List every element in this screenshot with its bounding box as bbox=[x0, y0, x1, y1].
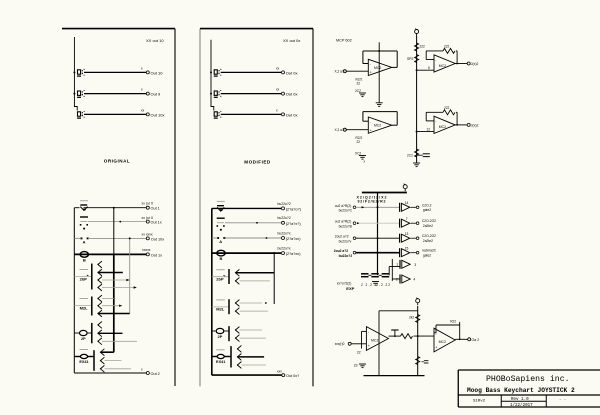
mgroup1 wire a bold bbox=[236, 272, 275, 274]
transistor Q1b bbox=[98, 269, 102, 276]
rev box right line bbox=[545, 395, 547, 407]
resistor R5 box bbox=[216, 300, 225, 312]
rev box divider bbox=[501, 400, 546, 402]
pot A1 bbox=[80, 238, 88, 244]
mgroup1 bracket bbox=[228, 269, 230, 284]
svg-text:ou2 a?R(2): ou2 a?R(2) bbox=[335, 204, 352, 208]
svg-text:SPS: SPS bbox=[407, 57, 413, 61]
group3 stub in bbox=[87, 332, 92, 334]
svg-text:1: 1 bbox=[396, 263, 398, 267]
op-amp U3B triangle bbox=[434, 328, 455, 352]
feedback left vert bbox=[378, 311, 380, 376]
svg-text:+: + bbox=[370, 71, 372, 75]
U2B feedback right vert bbox=[456, 112, 458, 125]
title block top border bbox=[458, 369, 600, 371]
group1 wire b arrowhead bbox=[126, 279, 129, 281]
U2A feedback top bbox=[426, 50, 443, 52]
bottom rail bbox=[364, 375, 425, 377]
U1B feedback loop top bbox=[363, 111, 397, 113]
U1B feedback left vert bbox=[362, 112, 364, 122]
lower bus wire left group bbox=[73, 208, 75, 373]
row3 terminal circle bbox=[353, 237, 356, 240]
modified box left border bbox=[199, 29, 201, 387]
U2B feedback right seg bbox=[456, 111, 457, 113]
terminal circle mrow4 bbox=[282, 252, 285, 255]
row2 wire bbox=[356, 222, 400, 224]
cap C3 bbox=[382, 274, 390, 277]
svg-text:2a2te2: 2a2te2 bbox=[423, 239, 433, 243]
mgroup4 wire a bold bbox=[238, 356, 265, 358]
pot B1 bbox=[80, 252, 88, 263]
buffer bus vertical bbox=[377, 193, 379, 276]
svg-text:15: 15 bbox=[405, 246, 409, 250]
ground g1 bbox=[359, 93, 366, 97]
wire mrow1 bbox=[212, 207, 281, 209]
mgroup3 bracket bbox=[228, 326, 230, 341]
original box right border bbox=[174, 29, 176, 386]
row1 out circle bbox=[416, 206, 419, 209]
svg-text:bu22o?C: bu22o?C bbox=[339, 209, 353, 213]
row1 terminal circle bbox=[353, 206, 356, 209]
svg-text:7: 7 bbox=[406, 217, 408, 221]
buffer G1 bbox=[400, 203, 410, 212]
svg-text:(2?a?o?): (2?a?o?) bbox=[286, 207, 302, 211]
mgroup2 wire b bbox=[240, 310, 269, 312]
transistor Q3b bbox=[98, 330, 102, 337]
mgroup2 bracket bbox=[228, 299, 230, 314]
junction dot busA row1 bbox=[113, 207, 115, 209]
buffer input bracket bbox=[391, 259, 393, 281]
transistor Q8b bbox=[237, 354, 241, 361]
svg-text:Moog Bass Keychart JOYSTICK 2: Moog Bass Keychart JOYSTICK 2 bbox=[467, 387, 575, 394]
U2B feedback left vert bbox=[425, 112, 427, 121]
mgroup1 wire b bbox=[240, 280, 271, 282]
inner vertical bus B bbox=[129, 238, 131, 313]
resistor RZ4 on vertical bbox=[416, 315, 420, 323]
resistor R1 box bbox=[80, 270, 89, 282]
svg-text:PHOBoSapiens inc.: PHOBoSapiens inc. bbox=[486, 374, 570, 384]
wire row4 thick bbox=[74, 253, 146, 255]
row3 junction bbox=[377, 237, 379, 239]
svg-text:XC2: XC2 bbox=[355, 152, 361, 156]
pot A4 bbox=[216, 328, 224, 338]
buffer5 stub bbox=[389, 266, 400, 268]
long vertical through U1A bbox=[378, 42, 380, 102]
mgroup3 wire b bbox=[240, 337, 267, 339]
junction dot U2B out bbox=[456, 124, 458, 126]
svg-text:M2L: M2L bbox=[80, 305, 89, 310]
terminal circle mrow2 bbox=[282, 221, 285, 224]
terminal circle U2A out bbox=[467, 62, 470, 65]
wire mrow4 thick bbox=[212, 252, 281, 254]
transistor Q8c bbox=[237, 362, 241, 369]
svg-text:B: B bbox=[220, 256, 223, 261]
group1 wire b bbox=[102, 279, 129, 281]
terminal circle bottom bbox=[146, 372, 149, 375]
row4 terminal circle bbox=[353, 251, 356, 254]
transistor Q7b bbox=[235, 335, 239, 342]
terminal circle row2 bbox=[146, 220, 149, 223]
pot A2 bbox=[80, 330, 88, 340]
wire mrow3 bbox=[212, 237, 218, 239]
svg-text:M2L: M2L bbox=[216, 307, 225, 312]
wire jack3 out bbox=[84, 113, 146, 115]
bus resistor RZ2 bbox=[415, 55, 419, 63]
row2 terminal circle bbox=[353, 222, 356, 225]
wire mcomp g1 bbox=[212, 276, 229, 278]
wire mjack1 out bbox=[221, 71, 281, 73]
row4 out circle bbox=[416, 251, 419, 254]
junction dot U3A out bbox=[394, 335, 396, 337]
svg-text:Out 1x: Out 1x bbox=[151, 253, 162, 257]
transistor Q4c bbox=[100, 365, 104, 372]
svg-text:gate2: gate2 bbox=[423, 253, 431, 257]
wire mjack2 out bbox=[221, 93, 281, 95]
U2A feedback left vert bbox=[425, 51, 427, 60]
group2 wire b bbox=[102, 305, 119, 307]
terminal circle row3 bbox=[146, 237, 149, 240]
svg-text:Out 2: Out 2 bbox=[151, 372, 160, 376]
transistor Q1c bbox=[98, 277, 102, 284]
U2B out wire bbox=[455, 124, 467, 126]
svg-text:MC2: MC2 bbox=[439, 340, 446, 344]
svg-text:xx: xx bbox=[276, 67, 280, 71]
svg-text:EXP: EXP bbox=[346, 286, 354, 291]
jack J6 bbox=[214, 111, 222, 118]
bottom wire mid out bbox=[212, 374, 282, 376]
transistor Q5a bbox=[235, 269, 239, 276]
modified box top border bbox=[200, 28, 313, 30]
transistor Q5b bbox=[235, 278, 239, 285]
group4 stub in bbox=[88, 356, 94, 358]
filter cap side mark bbox=[422, 361, 429, 363]
U1B output stub bbox=[392, 124, 397, 126]
op-amp U3A triangle bbox=[366, 327, 388, 351]
bus resistor RZ3 bbox=[415, 149, 419, 157]
svg-text:MC2: MC2 bbox=[374, 66, 381, 70]
cap C2 bbox=[371, 274, 379, 277]
power flag rail bbox=[403, 184, 407, 192]
terminal circle mout2 bbox=[282, 92, 285, 95]
svg-text:xxxxx: xxxxx bbox=[142, 248, 151, 252]
U3A minus input stub bbox=[362, 330, 367, 332]
row1 junction bbox=[377, 206, 379, 208]
junction dot mrow3 bbox=[266, 237, 268, 239]
wire jack1 out bbox=[84, 71, 146, 73]
svg-text:MCP 602: MCP 602 bbox=[336, 39, 352, 43]
svg-text:(2?a?x?): (2?a?x?) bbox=[286, 222, 302, 226]
svg-text:MC2: MC2 bbox=[439, 64, 446, 68]
transistor Q1d bbox=[98, 284, 102, 291]
svg-text:gate2: gate2 bbox=[423, 208, 431, 212]
svg-text:bu22o?2: bu22o?2 bbox=[339, 254, 353, 258]
wire row2 bbox=[88, 221, 146, 223]
row4 junction bbox=[376, 252, 378, 254]
U2B feedback resistor bbox=[443, 110, 455, 115]
svg-text:2ou2 a?2: 2ou2 a?2 bbox=[334, 249, 348, 253]
lower bus wire mid group bbox=[211, 208, 213, 375]
svg-text:(2?a?xx): (2?a?xx) bbox=[286, 252, 302, 256]
original box top border bbox=[62, 28, 175, 30]
junction dot loop1 bbox=[378, 50, 380, 52]
svg-text:Out 10: Out 10 bbox=[151, 70, 164, 75]
group2 wire a bbox=[102, 298, 114, 300]
svg-text:S1Rv2: S1Rv2 bbox=[473, 400, 486, 404]
group4 bracket bbox=[93, 350, 95, 371]
transistor Q1a bbox=[98, 261, 102, 268]
input terminal circle X bbox=[343, 70, 346, 73]
junction dot U3B out bbox=[459, 338, 461, 340]
transistor Q2c bbox=[98, 310, 102, 317]
stub cap bar bbox=[391, 329, 398, 331]
U1A feedback right vert bbox=[396, 51, 398, 67]
svg-text:EX41: EX41 bbox=[216, 360, 225, 364]
ground bus bottom bbox=[413, 163, 420, 167]
transistor Q3a bbox=[98, 322, 102, 329]
wire comp g4 bbox=[74, 356, 80, 358]
bypass cap plate b bbox=[423, 156, 430, 158]
svg-text:X,2 a? 0: X,2 a? 0 bbox=[335, 70, 347, 74]
terminal circle mrow3 bbox=[282, 237, 285, 240]
svg-text:B: B bbox=[83, 257, 86, 262]
svg-text:Out 1: Out 1 bbox=[151, 207, 160, 211]
mgroup4 bracket bbox=[230, 346, 232, 367]
ground U3A lower bbox=[359, 364, 366, 368]
group1 wire c bbox=[102, 287, 134, 289]
svg-text:Oa 2: Oa 2 bbox=[472, 338, 480, 342]
svg-text:Out 10x: Out 10x bbox=[151, 112, 165, 117]
transistor Q4a bbox=[100, 349, 104, 356]
svg-text:13: 13 bbox=[405, 232, 409, 236]
terminal circle out10 bbox=[146, 71, 149, 74]
row1 out stub bbox=[411, 206, 417, 208]
svg-text:12: 12 bbox=[427, 127, 431, 131]
title block bottom border bbox=[458, 406, 600, 408]
row4 out stub bbox=[411, 252, 417, 254]
row2 junction bbox=[357, 222, 359, 224]
terminal circle out8 bbox=[146, 113, 149, 116]
U2A feedback left stub bbox=[426, 59, 434, 61]
input bus wire bbox=[74, 37, 77, 111]
wire mcomp g2 bbox=[212, 306, 229, 308]
U3A minus RC vertical bbox=[361, 331, 363, 348]
interstage resistor bbox=[401, 334, 413, 339]
input terminal circle U3A bbox=[348, 342, 351, 345]
row3 out stub bbox=[411, 237, 417, 239]
svg-text:xx: xx bbox=[141, 109, 145, 113]
inner vertical bus A thick bbox=[113, 254, 115, 352]
svg-text:Out 10x: Out 10x bbox=[151, 237, 164, 241]
svg-text:2ou2 a?2: 2ou2 a?2 bbox=[335, 235, 349, 239]
svg-text:bu22o?B: bu22o?B bbox=[339, 225, 353, 229]
wire mrow2 bbox=[225, 222, 281, 224]
filter resistor on vertical bbox=[416, 357, 420, 365]
svg-text:bu22o?x: bu22o?x bbox=[278, 247, 291, 251]
svg-text:C2O-2O2: C2O-2O2 bbox=[422, 234, 436, 238]
resistor R4 box bbox=[216, 270, 225, 282]
svg-text:2P: 2P bbox=[218, 335, 223, 339]
transistor Q4b bbox=[100, 357, 104, 364]
resistor R6 box bbox=[216, 350, 225, 364]
main vertical bottom section bbox=[417, 306, 419, 376]
svg-text:A: A bbox=[219, 239, 222, 244]
row2 out circle bbox=[416, 222, 419, 225]
svg-text:xx xxxx: xx xxxx bbox=[142, 233, 153, 237]
jack J1 bbox=[77, 69, 85, 76]
group3 wire b bold bbox=[98, 332, 122, 334]
inner vertical mid bbox=[273, 253, 275, 304]
cap row stub b bbox=[379, 274, 382, 276]
svg-text:MODIFIED: MODIFIED bbox=[244, 160, 271, 165]
buffer G3 bbox=[400, 234, 410, 243]
stub to U2B bbox=[417, 131, 434, 133]
U1B feedback left stub bbox=[363, 120, 368, 122]
svg-text:5: 5 bbox=[428, 66, 430, 70]
power rail bbox=[362, 192, 407, 194]
group3 bracket bbox=[91, 323, 93, 343]
junction dot mjack2 bbox=[210, 93, 212, 95]
op-amp U2A triangle bbox=[434, 55, 455, 72]
svg-text:222: 222 bbox=[444, 106, 450, 110]
U3B feedback vert bbox=[459, 322, 461, 339]
U2B feedback left stub bbox=[426, 120, 434, 122]
wire Y in bbox=[346, 129, 368, 131]
svg-text:ou2 a?R(2): ou2 a?R(2) bbox=[335, 220, 352, 224]
svg-text:22-: 22- bbox=[354, 364, 359, 368]
svg-text:MC2: MC2 bbox=[374, 124, 381, 128]
U3A out junction stub bbox=[394, 330, 396, 336]
terminal circle mout1 bbox=[282, 71, 285, 74]
svg-text:2bP: 2bP bbox=[80, 276, 88, 281]
op-amp U2B triangle bbox=[434, 116, 455, 133]
svg-text:A: A bbox=[83, 239, 86, 244]
power bus vertical bbox=[416, 36, 418, 163]
svg-text:no2ma2C: no2ma2C bbox=[422, 249, 437, 253]
transistor Q2a bbox=[98, 295, 102, 302]
ground g2 bbox=[359, 156, 366, 160]
svg-text:Out 1x: Out 1x bbox=[151, 221, 162, 225]
bus resistor RZ1 bbox=[415, 43, 419, 51]
svg-text:22: 22 bbox=[357, 351, 361, 355]
junction dot jack1 bbox=[73, 71, 75, 73]
svg-text:2P: 2P bbox=[81, 337, 86, 341]
junction dot busB row3 bbox=[129, 237, 131, 239]
group4 wire a thick bbox=[101, 351, 114, 353]
svg-text:MC2: MC2 bbox=[371, 339, 378, 343]
wire row3 bbox=[74, 237, 81, 239]
wire jack2 out bbox=[84, 93, 146, 95]
terminal circle row4 bbox=[146, 253, 149, 256]
wire U3A in bbox=[351, 343, 366, 345]
U2B feedback top bbox=[426, 111, 443, 113]
op-amp U1A triangle bbox=[368, 59, 392, 75]
svg-text:Out 9: Out 9 bbox=[151, 92, 162, 97]
resistor R3 box bbox=[79, 350, 88, 364]
trimmer VR2 bbox=[80, 217, 88, 229]
terminal circle row1 bbox=[146, 206, 149, 209]
row3 wire bbox=[356, 237, 400, 239]
svg-text:C2O-2O2: C2O-2O2 bbox=[422, 219, 436, 223]
junction dot bus a bbox=[416, 69, 418, 71]
U1A output stub bbox=[392, 66, 397, 68]
svg-text:2bP: 2bP bbox=[216, 277, 224, 282]
mgroup3 wire a bbox=[240, 329, 263, 331]
buffer6 stub bbox=[392, 278, 400, 280]
svg-text:xxx: xxx bbox=[277, 369, 282, 373]
cap row right riser bbox=[388, 267, 390, 276]
wire mcomp g4 bbox=[212, 356, 217, 358]
group1 wire a bold bbox=[98, 272, 123, 274]
interstage wire bbox=[414, 335, 435, 337]
terminal circle out9 bbox=[146, 92, 149, 95]
U2A feedback right seg bbox=[456, 50, 457, 52]
title block left border bbox=[457, 370, 459, 407]
op-amp U1B triangle bbox=[368, 117, 392, 133]
buffer G2 bbox=[400, 219, 410, 228]
jack J5 bbox=[214, 90, 222, 97]
svg-text:2 2.2. 2.2.22: 2 2.2. 2.2.22 bbox=[361, 283, 390, 287]
cap C1 bbox=[361, 274, 369, 277]
svg-text:XX out 10: XX out 10 bbox=[146, 38, 164, 43]
mgroup4 stub in bbox=[224, 356, 231, 358]
jack J2 bbox=[77, 90, 85, 97]
group1 bracket bbox=[91, 264, 93, 290]
junction dot interstage bbox=[417, 335, 419, 337]
U1A feedback left stub bbox=[363, 63, 368, 65]
pot B2 bbox=[217, 250, 225, 261]
svg-text:XX out 0x: XX out 0x bbox=[283, 38, 300, 43]
junction mark mg2 bbox=[265, 302, 267, 304]
U3B out wire bbox=[455, 338, 467, 340]
input bus wire mod bbox=[211, 40, 214, 111]
svg-text:(2?a?xx): (2?a?xx) bbox=[286, 237, 302, 241]
wire comp g3 bbox=[74, 332, 79, 334]
rev box left line bbox=[500, 395, 502, 407]
wire comp g2 bbox=[74, 305, 91, 307]
wire X in bbox=[346, 70, 368, 72]
group2 bracket bbox=[91, 297, 93, 316]
svg-text:1/22/2017: 1/22/2017 bbox=[510, 403, 533, 408]
svg-text:- -: - - bbox=[559, 399, 566, 403]
buffer G5 bbox=[400, 260, 410, 269]
group2 wire b arrowhead bbox=[119, 305, 122, 307]
junction mark mrow2 bbox=[256, 222, 258, 224]
transistor Q7a bbox=[235, 327, 239, 334]
svg-text:C2O.2: C2O.2 bbox=[422, 203, 432, 207]
U2A feedback resistor bbox=[443, 48, 455, 53]
wire mcomp g3 bbox=[212, 330, 216, 332]
junction dot mid row4 bbox=[273, 252, 275, 254]
svg-text:14: 14 bbox=[405, 201, 409, 205]
transistor Q2b bbox=[98, 302, 102, 309]
buffer G4 bbox=[400, 248, 410, 257]
bypass cap stub bbox=[417, 154, 423, 156]
junction dot U2A out bbox=[456, 63, 458, 65]
svg-text:22: 22 bbox=[357, 82, 361, 86]
U2A out wire bbox=[455, 63, 467, 65]
group1 wire c arrowhead bbox=[134, 286, 137, 288]
U1B feedback right vert bbox=[396, 112, 398, 126]
bottom wire out bbox=[74, 372, 146, 374]
svg-text:4: 4 bbox=[413, 277, 415, 281]
svg-text:xxx(r)0: xxx(r)0 bbox=[335, 342, 345, 346]
U3B feedback top bbox=[436, 324, 460, 326]
input terminal circle Y bbox=[343, 128, 346, 131]
svg-text:Out 0x: Out 0x bbox=[286, 92, 298, 97]
transistor Q6a bbox=[235, 300, 239, 307]
svg-text:bu22o?2: bu22o?2 bbox=[278, 216, 291, 220]
svg-text:R22: R22 bbox=[450, 320, 456, 324]
